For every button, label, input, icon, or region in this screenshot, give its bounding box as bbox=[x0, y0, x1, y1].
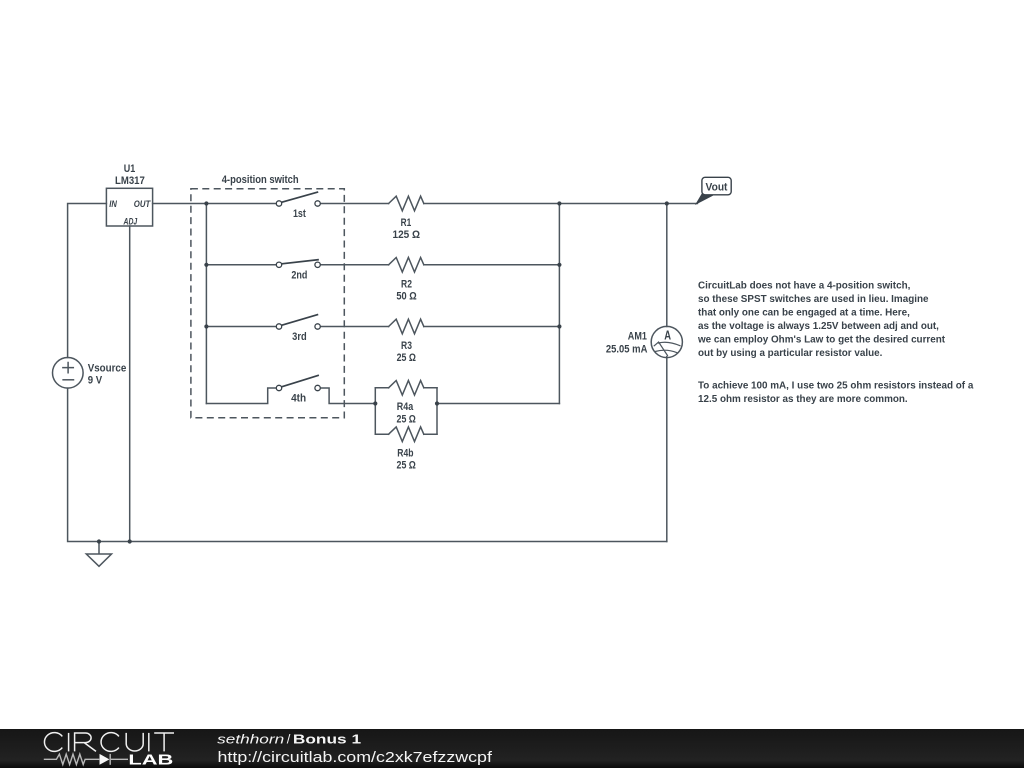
svg-text:OUT: OUT bbox=[134, 199, 151, 210]
svg-text:125 Ω: 125 Ω bbox=[393, 229, 421, 241]
svg-text:Vout: Vout bbox=[706, 181, 728, 193]
svg-text:R4b: R4b bbox=[397, 448, 413, 460]
wire from Vsource bottom to ground rail corner bbox=[68, 388, 99, 541]
junction node bus row2 bbox=[204, 263, 208, 267]
svg-text:R4a: R4a bbox=[397, 401, 414, 413]
switch SW4 terminal circles bbox=[276, 385, 281, 390]
node flag Vout pointer bbox=[695, 194, 715, 205]
ammeter needle bbox=[654, 342, 667, 356]
svg-text:Bonus 1: Bonus 1 bbox=[293, 731, 361, 746]
wire from R1 to right rail and on to ammeter junction and Vout elbow bbox=[424, 203, 698, 205]
junction node ground bbox=[97, 539, 101, 543]
ammeter AM1 circle bbox=[651, 326, 682, 357]
voltage source Vsource circle bbox=[53, 358, 84, 389]
ammeter meter arcs bbox=[655, 342, 680, 352]
svg-text:A: A bbox=[664, 328, 671, 342]
svg-text:1st: 1st bbox=[293, 208, 306, 220]
minus sign inside Vsource bbox=[63, 379, 73, 381]
wire row3: bus to switch3 bbox=[206, 326, 276, 328]
svg-text:as the voltage is always 1.25V: as the voltage is always 1.25V between a… bbox=[698, 321, 939, 332]
svg-text:IN: IN bbox=[109, 199, 118, 210]
annotation text block paragraph 2 bbox=[698, 381, 974, 406]
junction node ADJ bottom bbox=[128, 539, 132, 543]
svg-text:LAB: LAB bbox=[128, 753, 173, 768]
resistor R2 zigzag bbox=[389, 258, 424, 273]
wire from OUT pin to switch bus bbox=[153, 203, 207, 205]
junction node bus row3 bbox=[204, 324, 208, 328]
wire top row: switch1 right to R1 bbox=[320, 203, 388, 205]
junction node R4 right bbox=[435, 401, 439, 405]
svg-text:9 V: 9 V bbox=[88, 374, 103, 386]
switch SW2 lever (engaged) bbox=[282, 260, 318, 264]
svg-text:3rd: 3rd bbox=[292, 331, 307, 343]
wire row4: switch4 right step down to R4 junction bbox=[321, 388, 376, 404]
wire top row: from bus through switch 1 gap start bbox=[206, 203, 276, 205]
svg-text:LM317: LM317 bbox=[115, 175, 145, 187]
switch SW3 lever bbox=[281, 315, 317, 326]
resistor R4b leads bbox=[375, 433, 437, 435]
resistor R4a leads bbox=[375, 387, 437, 389]
switch SW1 lever bbox=[281, 192, 317, 202]
svg-text:sethhorn: sethhorn bbox=[217, 731, 284, 746]
switch SW1 terminal circles bbox=[276, 201, 281, 206]
svg-text:R1: R1 bbox=[401, 217, 412, 229]
ground symbol stub and triangle bbox=[86, 542, 111, 567]
switch SW3 terminal circles bbox=[276, 324, 281, 329]
svg-text:so these SPST switches are use: so these SPST switches are used in lieu.… bbox=[698, 294, 929, 305]
bottom ground rail wire bbox=[99, 541, 667, 543]
svg-text:25 Ω: 25 Ω bbox=[397, 352, 416, 364]
svg-text:4-position switch: 4-position switch bbox=[222, 174, 299, 186]
node flag Vout box bbox=[702, 177, 731, 195]
svg-text:12.5 ohm resistor as they are: 12.5 ohm resistor as they are more commo… bbox=[698, 394, 908, 405]
wire row2: bus to switch2 bbox=[206, 264, 276, 266]
wire ammeter bottom to ground rail bbox=[666, 357, 668, 542]
wire from R2 to right rail bbox=[424, 264, 560, 266]
junction node rail row2 bbox=[557, 263, 561, 267]
voltage regulator U1 LM317 box bbox=[106, 188, 152, 226]
svg-text:Vsource: Vsource bbox=[88, 362, 127, 374]
svg-text:25 Ω: 25 Ω bbox=[397, 460, 416, 472]
dashed enclosure 4-position switch bbox=[191, 189, 344, 418]
svg-text:CircuitLab does not have a 4-p: CircuitLab does not have a 4-position sw… bbox=[698, 280, 911, 291]
junction node ammeter top bbox=[665, 201, 669, 205]
svg-text:R3: R3 bbox=[401, 340, 412, 352]
svg-text:that only one can be engaged a: that only one can be engaged at a time. … bbox=[698, 307, 910, 318]
footer title sethhorn / Bonus 1 bbox=[217, 731, 361, 746]
wire from R3 to right rail bbox=[424, 326, 560, 328]
svg-text:AM1: AM1 bbox=[628, 331, 647, 343]
junction node at bus top bbox=[204, 201, 208, 205]
annotation text block paragraph 1 bbox=[697, 280, 946, 359]
svg-text:50 Ω: 50 Ω bbox=[396, 291, 416, 303]
resistor R4a zigzag bbox=[389, 381, 424, 396]
right rail vertical wire bbox=[558, 204, 560, 404]
resistor R1 zigzag bbox=[389, 196, 424, 211]
wire from IN pin left and down to Vsource top bbox=[68, 204, 107, 358]
wire ammeter vertical top bbox=[666, 204, 668, 327]
wire row2: switch2 right to R2 bbox=[320, 264, 388, 266]
svg-text:R2: R2 bbox=[401, 278, 412, 290]
CircuitLab logo resistor-diode glyph bbox=[44, 754, 128, 765]
svg-text:we can employ Ohm's Law to get: we can employ Ohm's Law to get the desir… bbox=[697, 335, 946, 346]
CircuitLab logo CIRCUIT wordmark bbox=[44, 733, 174, 752]
svg-text:25.05 mA: 25.05 mA bbox=[606, 343, 648, 355]
svg-text:4th: 4th bbox=[291, 392, 306, 404]
svg-text:/: / bbox=[287, 731, 291, 746]
switch SW2 terminal circles bbox=[276, 262, 281, 267]
resistor R4b zigzag bbox=[389, 427, 424, 442]
svg-text:U1: U1 bbox=[124, 163, 136, 175]
wire row4: bus down and step up to switch4 bbox=[206, 388, 276, 404]
svg-text:http://circuitlab.com/c2xk7efz: http://circuitlab.com/c2xk7efzzwcpf bbox=[218, 750, 493, 766]
parallel resistor block left vertical bbox=[374, 388, 376, 434]
svg-text:To achieve 100 mA, I use two 2: To achieve 100 mA, I use two 25 ohm resi… bbox=[698, 381, 974, 392]
svg-text:25 Ω: 25 Ω bbox=[397, 413, 416, 425]
parallel resistor block right vertical bbox=[436, 388, 438, 434]
svg-text:2nd: 2nd bbox=[291, 269, 307, 281]
junction node rail row3 bbox=[557, 324, 561, 328]
wire ADJ pin down to bottom rail bbox=[129, 226, 131, 542]
resistor R3 zigzag bbox=[389, 319, 424, 334]
CircuitLab logo diode triangle bbox=[100, 754, 110, 765]
junction node R4 left bbox=[373, 401, 377, 405]
svg-text:ADJ: ADJ bbox=[123, 217, 138, 228]
wire from R4 right junction to rail corner bbox=[437, 403, 559, 405]
svg-text:out by using a particular resi: out by using a particular resistor value… bbox=[698, 348, 883, 359]
switch SW4 lever bbox=[282, 376, 319, 387]
junction node rail row1 bbox=[557, 201, 561, 205]
plus sign inside Vsource bbox=[63, 363, 73, 373]
wire row3: switch3 right to R3 bbox=[320, 326, 388, 328]
vertical bus wire on left of switches bbox=[205, 204, 207, 404]
